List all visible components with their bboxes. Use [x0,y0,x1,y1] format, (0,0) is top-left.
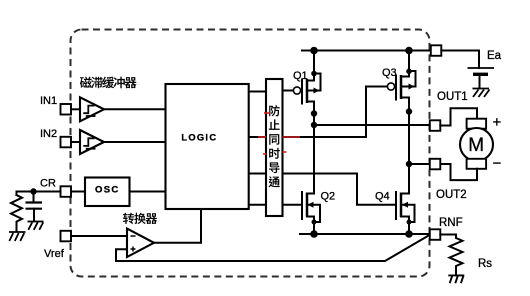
wire OSC to LOGIC [130,191,166,193]
svg-text:M: M [468,135,484,156]
svg-text:LOGIC: LOGIC [181,133,217,143]
svg-text:−: − [493,155,502,172]
node Q1 drain b (OUT1) [311,122,317,128]
node rail-Q1 [310,47,318,55]
wire OUT2 to motor [440,164,477,180]
wire block to Q2 gate [283,204,303,206]
svg-text:Rs: Rs [478,258,492,270]
ground (CR resistor) [9,232,26,241]
svg-text:Q1: Q1 [293,70,308,82]
wire buffer1 to LOGIC [104,108,166,110]
wire op-amp output to LOGIC [154,209,201,243]
motor M [460,119,493,169]
red tick node a [264,112,270,114]
node Q2 source [310,230,318,238]
wire block to Q3 gate (zigzag, partly red) [283,87,388,138]
wire block to Q1 gate [283,90,294,92]
OSC U3 [85,178,130,207]
resistor Rs [440,235,462,276]
svg-text:RNF: RNF [439,217,463,229]
svg-text:OSC: OSC [95,184,120,195]
wire IN1 to buffer [71,108,80,110]
wire Vref to op-amp [71,235,127,237]
pad IN2 [61,137,72,148]
wire CR pad to OSC [71,191,85,193]
ground (Ea) [473,89,490,98]
wire Ea [441,51,479,69]
pad Vref [61,231,72,242]
transistor Q1 (PMOS) [293,51,320,194]
transistor Q3 (PMOS) [387,51,415,194]
svg-text:IN1: IN1 [40,95,57,107]
svg-text:OUT2: OUT2 [436,189,467,201]
wire LOGIC to block 1 [249,91,266,93]
pad IN1 [61,104,72,115]
node Q1 drain a [311,110,317,116]
node Q4 source [405,230,413,238]
svg-text:Q4: Q4 [375,191,390,203]
wire buffer2 to LOGIC [104,141,166,143]
wire OUT2 line [409,163,430,165]
buffer U1 (hysteresis) [80,97,104,121]
wire LOGIC to block 2 (red) [249,136,266,138]
wire block to Q4 gate [283,174,397,205]
node rail-Q3 [405,47,413,55]
pad CR [61,186,72,197]
LOGIC U4 [166,84,249,209]
source rail [300,233,430,235]
label 转换器 [123,213,157,224]
wire OUT1 to motor [440,108,477,125]
svg-text:OUT1: OUT1 [437,91,468,103]
resistor (CR) [11,195,22,232]
svg-text:Vref: Vref [44,248,65,260]
svg-text:CR: CR [40,178,56,190]
svg-text:IN2: IN2 [40,128,57,140]
pad RNF [430,229,441,240]
pad OUT1 [430,120,441,131]
red tick node b [263,152,287,154]
label 磁滞缓冲器 [80,77,137,89]
node Q3 drain b (OUT2) [406,161,412,167]
transistor Q2 (NMOS) [302,192,320,234]
top rail [302,50,431,52]
node Q3 drain a [406,108,412,114]
capacitor Ea [468,67,495,69]
capacitor (CR) [33,192,35,203]
wire LOGIC to block 4 [249,204,266,206]
wire OUT1 line [314,124,430,126]
svg-text:Ea: Ea [487,50,502,62]
pad OUT2 [430,159,441,170]
svg-text:Q3: Q3 [382,67,397,79]
node CR junction [30,188,36,194]
wire CR net [17,192,61,196]
op-amp U5 (converter) [127,229,154,258]
svg-text:Q2: Q2 [321,191,336,203]
wire IN2 to buffer [71,141,80,143]
svg-text:+: + [493,114,502,131]
IC dashed border [71,30,430,277]
wire LOGIC to block 3 [249,173,266,175]
pad Ea [431,45,442,56]
buffer U2 (hysteresis) [80,130,104,154]
ground (CR capacitor) [28,222,44,230]
transistor Q4 (NMOS) [396,192,415,234]
wire op-amp plus feedback [116,235,430,261]
ground (Rs) [448,275,464,283]
block 防止同时导通 U6 [266,79,283,216]
